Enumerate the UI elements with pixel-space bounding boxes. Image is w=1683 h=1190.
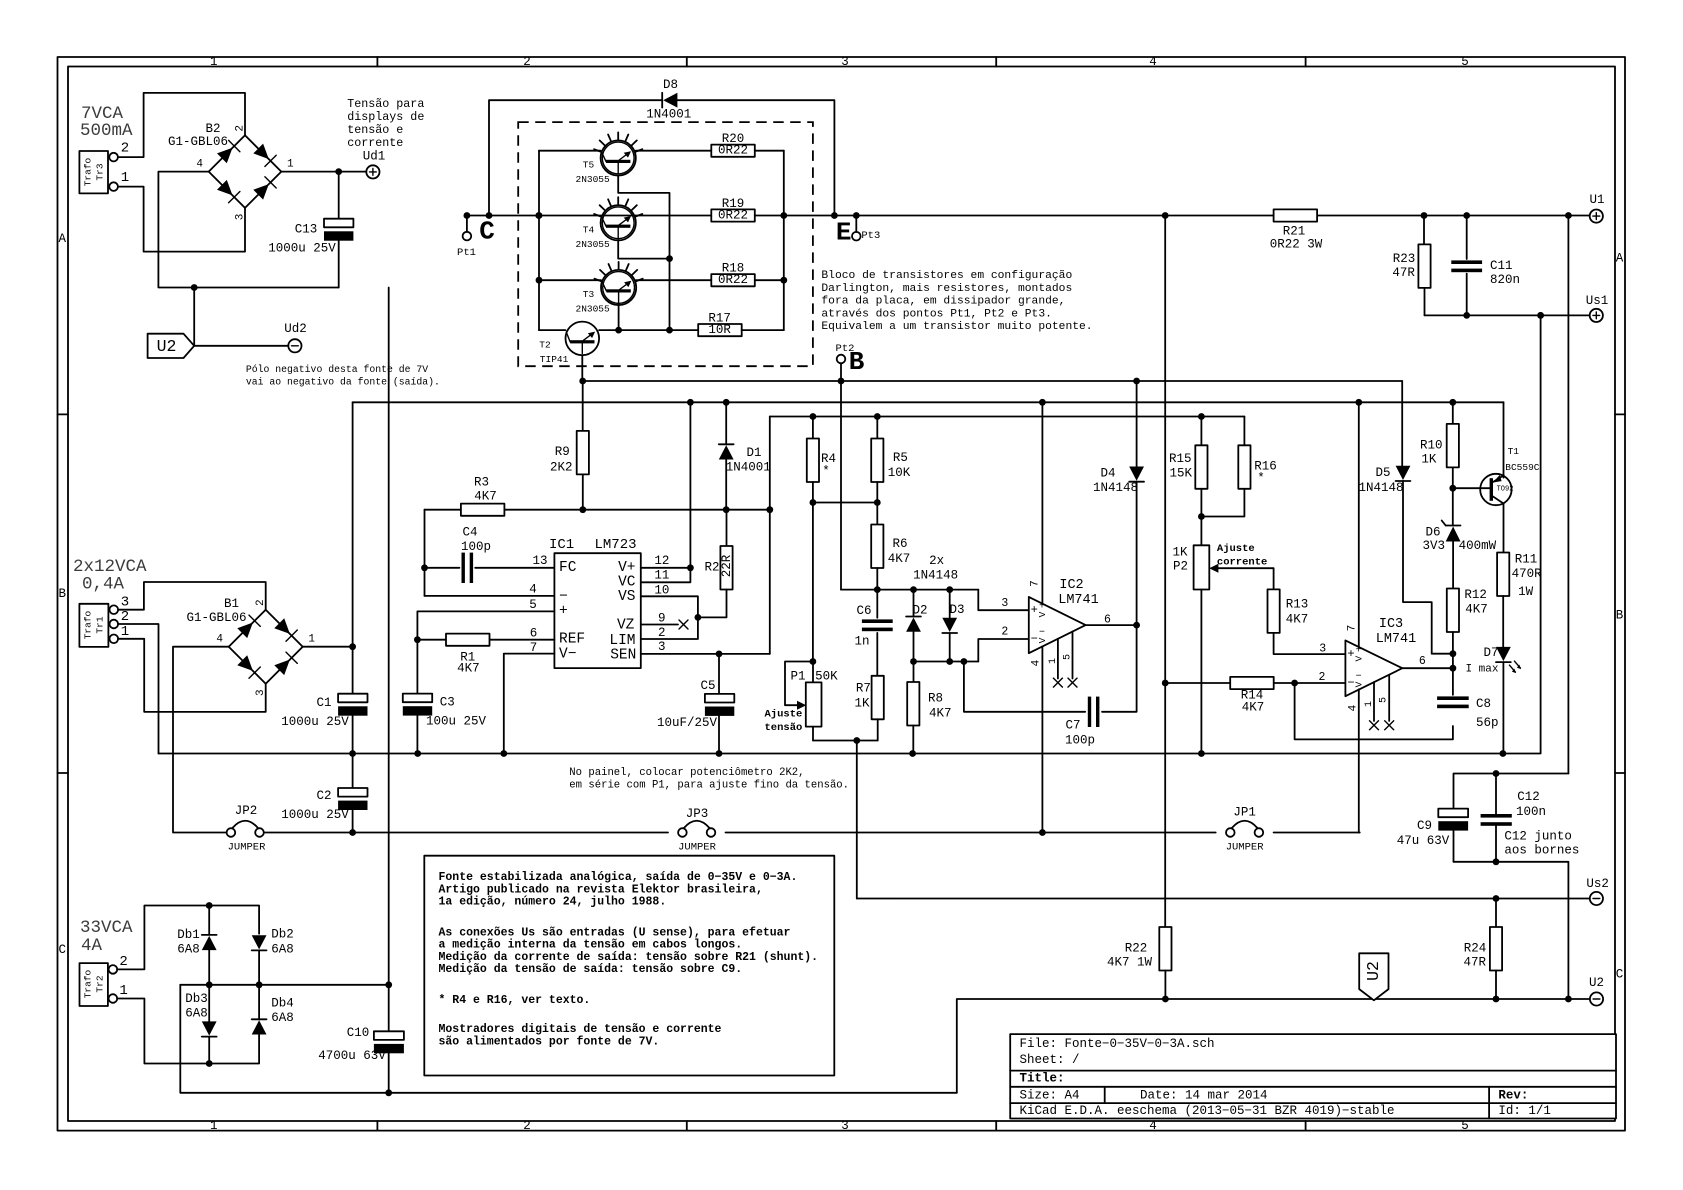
svg-text:Ud2: Ud2: [284, 322, 307, 336]
svg-text:2: 2: [121, 141, 129, 157]
diode Db4 6A8: [252, 985, 294, 1036]
svg-text:5: 5: [1379, 697, 1390, 703]
label Ajuste corrente: [1217, 543, 1267, 569]
output Us2: [1590, 892, 1603, 905]
text C12 junto aos bornes: [1504, 830, 1579, 858]
wire U1 sense vertical: [1567, 216, 1569, 774]
svg-text:LM741: LM741: [1376, 632, 1417, 647]
text 7VCA 500mA: [80, 104, 133, 141]
wire D8 branch: [489, 100, 834, 215]
resistor R7 1K: [854, 676, 883, 741]
svg-text:3: 3: [255, 689, 267, 696]
svg-text:T5: T5: [583, 160, 595, 171]
svg-text:2: 2: [523, 1119, 531, 1133]
transistor T5 2N3055: [539, 132, 711, 185]
svg-text:820n: 820n: [1490, 273, 1520, 287]
svg-text:4K7: 4K7: [457, 662, 480, 676]
svg-text:I max: I max: [1465, 664, 1498, 676]
svg-text:Trafo: Trafo: [83, 610, 94, 639]
svg-text:1N4148: 1N4148: [1358, 481, 1403, 495]
svg-text:* R4 e R16, ver texto.: * R4 e R16, ver texto.: [439, 994, 591, 1007]
svg-text:C12: C12: [1517, 790, 1540, 804]
svg-text:C10: C10: [347, 1026, 370, 1040]
svg-text:Equivalem a um transistor muit: Equivalem a um transistor muito potente.: [821, 321, 1092, 333]
wire B2 pin4 to C13 minus rail: [158, 172, 338, 288]
svg-text:500mA: 500mA: [80, 121, 133, 141]
svg-text:2: 2: [523, 55, 531, 69]
wire R4 to P1 top: [812, 503, 814, 662]
transistor T2 TIP41: [539, 322, 698, 365]
svg-text:1000u 25V: 1000u 25V: [281, 808, 349, 822]
svg-text:4A: 4A: [81, 936, 103, 956]
point Pt2: [836, 343, 855, 381]
wire Us2 rail: [857, 895, 1590, 902]
svg-text:B: B: [59, 587, 67, 601]
svg-text:1000u 25V: 1000u 25V: [268, 242, 336, 256]
resistor R8 4K7: [907, 662, 951, 754]
wire T2 emitter to node B: [579, 355, 586, 384]
svg-text:C13: C13: [295, 223, 318, 237]
diode Db2 6A8: [252, 928, 294, 985]
svg-text:TIP41: TIP41: [540, 354, 569, 365]
svg-text:56p: 56p: [1476, 716, 1499, 730]
wire Tr1 pin1 to B1 AC bottom: [118, 639, 266, 712]
svg-text:R2: R2: [704, 561, 719, 575]
wire sense plus rail to C9: [1454, 770, 1569, 809]
svg-text:C: C: [59, 943, 67, 957]
wire R12 bottom to C8 top: [1452, 654, 1454, 669]
output U2: [1590, 992, 1603, 1005]
svg-text:5: 5: [1461, 55, 1469, 69]
svg-text:3: 3: [234, 214, 246, 221]
wire Tr3 pin1 to bridge B2 AC2: [118, 187, 245, 252]
svg-text:C1: C1: [316, 696, 331, 710]
svg-text:2: 2: [119, 954, 127, 970]
svg-text:1K: 1K: [1172, 546, 1188, 560]
label B1 G1-GBL06: [186, 597, 246, 625]
wire R10 to T1 base: [1449, 485, 1480, 492]
svg-text:Ajuste: Ajuste: [765, 709, 803, 721]
svg-text:Date: 14 mar 2014: Date: 14 mar 2014: [1140, 1088, 1268, 1102]
svg-text:2x: 2x: [929, 554, 944, 568]
svg-text:V: V: [1353, 656, 1364, 662]
IC2 pins 1 5 no-connect: [1053, 632, 1077, 688]
svg-text:4: 4: [1031, 659, 1043, 666]
capacitor C4 100p: [425, 526, 555, 584]
capacitor C6 1n: [854, 590, 892, 676]
svg-text:corrente: corrente: [347, 136, 403, 150]
transistor T4 2N3055: [576, 197, 643, 250]
svg-text:1N4148: 1N4148: [1093, 481, 1138, 495]
svg-text:3V3: 3V3: [1422, 539, 1445, 553]
svg-text:1: 1: [210, 1119, 218, 1133]
wire positive supply bus: [353, 399, 1504, 406]
text Tensao para displays: [347, 97, 424, 150]
wire IC1 VC pin11: [641, 568, 691, 583]
svg-text:1N4148: 1N4148: [913, 569, 958, 583]
svg-text:BC559C: BC559C: [1505, 462, 1540, 473]
wire IC1 REF pin6 to R1: [414, 636, 554, 643]
svg-text:Trafo: Trafo: [83, 157, 94, 186]
svg-text:−: −: [559, 589, 568, 605]
svg-text:IC2: IC2: [1059, 578, 1083, 593]
svg-text:C8: C8: [1476, 697, 1491, 711]
wire R3 feedback corner: [421, 510, 554, 596]
wire R4 R5 bottom rail: [810, 499, 881, 506]
svg-text:12: 12: [654, 554, 669, 568]
svg-text:são alimentados por fonte de 7: são alimentados por fonte de 7V.: [439, 1035, 660, 1048]
svg-text:6: 6: [1104, 614, 1111, 627]
svg-text:TO92: TO92: [1497, 486, 1514, 494]
svg-text:E: E: [836, 218, 852, 248]
diode D7 LED I max: [1465, 646, 1520, 754]
svg-text:V+: V+: [618, 560, 635, 576]
svg-text:4: 4: [1347, 704, 1359, 711]
capacitor C12 100n: [1481, 774, 1546, 862]
resistor R21 0R22 3W: [1270, 209, 1323, 251]
capacitor C10 4700u 63V: [318, 985, 404, 1093]
svg-text:V: V: [1037, 611, 1048, 617]
svg-text:V−: V−: [559, 646, 576, 662]
svg-text:3: 3: [1319, 643, 1326, 656]
svg-text:U1: U1: [1589, 193, 1604, 207]
svg-text:A: A: [1616, 252, 1624, 266]
wire IC3 pin4 corner at JP1 rail: [1358, 832, 1361, 834]
svg-text:9: 9: [658, 611, 666, 625]
wire Tr2 pin1 bottom rail: [117, 999, 259, 1067]
wire B2 pin1 to Ud1: [281, 168, 366, 175]
resistor R6 4K7: [871, 503, 910, 590]
svg-text:File: Fonte−0−35V−0−3A.sch: File: Fonte−0−35V−0−3A.sch: [1020, 1037, 1215, 1051]
resistor R2 22R: [698, 510, 734, 618]
output U1: [1590, 210, 1603, 223]
svg-text:V: V: [1037, 637, 1048, 643]
svg-text:VZ: VZ: [617, 618, 635, 634]
label Ud1: [363, 150, 386, 164]
svg-text:400mW: 400mW: [1459, 539, 1497, 553]
svg-text:D2: D2: [912, 604, 927, 618]
svg-text:4K7: 4K7: [888, 552, 911, 566]
svg-text:Darlington, mais resistores, m: Darlington, mais resistores, montados: [821, 283, 1072, 295]
svg-text:Tr1: Tr1: [95, 616, 106, 633]
text 2x12VCA 0,4A: [73, 557, 147, 595]
label B big: [849, 347, 865, 377]
wire B1 pin4 to jumper JP2: [173, 647, 229, 833]
svg-text:7: 7: [1346, 625, 1358, 632]
capacitor C3 100u 25V: [403, 640, 487, 754]
svg-text:C11: C11: [1490, 259, 1513, 273]
wire Tr1 pin3 to B1 AC top: [118, 582, 266, 610]
wire IC3 feedback via C8: [1295, 683, 1453, 739]
diode D1 1N4001: [719, 402, 771, 509]
wire P1 R7 bottom rail: [810, 658, 878, 744]
svg-text:JP2: JP2: [235, 804, 258, 818]
svg-text:47R: 47R: [1392, 266, 1415, 280]
resistor R16: [1198, 417, 1277, 520]
svg-text:Rev:: Rev:: [1498, 1088, 1528, 1102]
wire IC1 plus input pin5: [417, 611, 554, 639]
power flag U2 bottom: [1359, 953, 1388, 1000]
svg-text:Size: A4: Size: A4: [1020, 1088, 1080, 1102]
svg-text:1: 1: [287, 159, 294, 171]
svg-text:R23: R23: [1393, 252, 1416, 266]
svg-text:VS: VS: [618, 589, 635, 605]
svg-text:1N4001: 1N4001: [726, 461, 771, 475]
diode D5 1N4148: [1358, 381, 1456, 657]
svg-text:R11: R11: [1515, 553, 1538, 567]
wire 7V negative long vertical: [388, 288, 390, 985]
op IC1 LM723 box: [549, 537, 641, 668]
svg-text:Medição da corrente de saída:: Medição da corrente de saída: tensão sob…: [439, 951, 819, 964]
wire IC2 output pin6: [1086, 614, 1140, 629]
diode D3 1N4148: [942, 590, 964, 662]
wire rectifier mid rail: [180, 981, 392, 988]
svg-text:C: C: [1616, 968, 1624, 982]
svg-text:1W: 1W: [1518, 585, 1534, 599]
svg-text:U2: U2: [1589, 976, 1604, 990]
svg-text:Title:: Title:: [1020, 1072, 1065, 1086]
resistor R3 4K7: [461, 476, 505, 516]
svg-text:tensão e: tensão e: [347, 123, 403, 137]
svg-text:R8: R8: [928, 692, 943, 706]
svg-text:1: 1: [119, 983, 127, 999]
IC3 pins 1 5 no-connect: [1370, 675, 1394, 730]
svg-text:Bloco de transistores em confi: Bloco de transistores em configuração: [821, 270, 1072, 282]
wire IC3 pin7 to bus: [1358, 402, 1360, 647]
text Polo negativo desta fonte: [246, 364, 440, 387]
text No painel colocar potenciometro: [569, 767, 849, 791]
svg-text:3: 3: [841, 55, 849, 69]
svg-text:13: 13: [532, 554, 547, 568]
resistor R17 10R: [698, 311, 784, 337]
svg-text:0,4A: 0,4A: [82, 575, 125, 595]
svg-text:C5: C5: [700, 679, 715, 693]
wire P1 rail down to Us2 rail: [856, 741, 858, 899]
wire B to R9: [582, 381, 584, 431]
svg-text:1K: 1K: [1421, 453, 1437, 467]
svg-text:+: +: [559, 604, 568, 620]
transistor T1 BC559C: [1480, 402, 1540, 552]
text 33VCA 4A: [80, 918, 133, 956]
svg-text:Mostradores digitais de tensão: Mostradores digitais de tensão e corrent…: [439, 1023, 722, 1036]
svg-text:R15: R15: [1169, 452, 1192, 466]
svg-text:As conexões Us são entradas (U: As conexões Us são entradas (U sense), p…: [439, 926, 791, 939]
svg-text:T2: T2: [539, 340, 551, 351]
svg-text:KiCad E.D.A. eeschema (2013−0: KiCad E.D.A. eeschema (2013−05−31 BZR 40…: [1020, 1104, 1395, 1118]
svg-text:Db3: Db3: [185, 992, 208, 1006]
wire R3 R9 D1 node line: [425, 506, 774, 513]
svg-text:4K7: 4K7: [929, 707, 952, 721]
svg-text:6A8: 6A8: [177, 943, 200, 957]
svg-text:6: 6: [530, 626, 538, 640]
text Bloco de transistores: [821, 270, 1092, 333]
point Pt3: [852, 216, 880, 243]
svg-text:aos bornes: aos bornes: [1504, 844, 1579, 858]
svg-text:IC1: IC1: [549, 537, 574, 553]
svg-text:U2: U2: [1364, 961, 1383, 981]
resistor R13 4K7: [1268, 589, 1346, 654]
svg-text:4: 4: [196, 159, 203, 171]
wire base line B: [583, 378, 1402, 385]
resistor R11 470R 1W: [1497, 553, 1542, 647]
svg-text:6: 6: [1419, 655, 1426, 668]
op-amp IC3 LM741: [1345, 617, 1416, 696]
diode D4 1N4148: [1093, 381, 1144, 625]
svg-text:SEN: SEN: [610, 648, 636, 664]
svg-text:3: 3: [658, 640, 666, 654]
diode Db3 6A8: [185, 985, 216, 1064]
pin 2 label of Tr3: [121, 141, 129, 157]
svg-text:2: 2: [1319, 671, 1326, 684]
svg-text:100p: 100p: [1065, 734, 1095, 748]
svg-text:D8: D8: [663, 78, 678, 92]
point Pt1: [457, 216, 476, 260]
svg-text:FC: FC: [559, 560, 577, 576]
wire T5 emitter to T4 collector node: [618, 176, 669, 259]
svg-text:LM741: LM741: [1058, 593, 1099, 608]
svg-text:−: −: [1039, 628, 1045, 639]
svg-text:V: V: [1353, 681, 1364, 687]
svg-text:2: 2: [255, 599, 267, 606]
node junction on C13 rail: [191, 284, 198, 291]
svg-text:D6: D6: [1425, 526, 1440, 540]
svg-text:Ud1: Ud1: [363, 150, 386, 164]
svg-text:B2: B2: [205, 122, 220, 136]
svg-text:2: 2: [658, 626, 666, 640]
svg-text:REF: REF: [559, 631, 585, 647]
svg-text:6A8: 6A8: [185, 1007, 208, 1021]
output Us1: [1590, 309, 1603, 322]
svg-text:470R: 470R: [1512, 567, 1543, 581]
resistor R22 4K7 1W: [1107, 927, 1172, 999]
wire to U2 flag: [194, 288, 288, 346]
svg-text:5: 5: [1461, 1119, 1469, 1133]
svg-text:Pt1: Pt1: [457, 247, 476, 259]
svg-text:R5: R5: [893, 451, 908, 465]
zener D6 3V3: [1422, 488, 1496, 588]
svg-text:Tr2: Tr2: [95, 975, 106, 992]
jumper JP3: [678, 807, 717, 854]
wire IC3 pin4 to jumper rail: [1358, 689, 1360, 832]
capacitor C11 820n: [1451, 216, 1520, 316]
wire Tr2 pin2 top rail: [117, 902, 259, 969]
resistor R5 10K: [871, 417, 911, 503]
IC1 pin names: [559, 560, 636, 664]
label B2 G1-GBL06: [168, 122, 228, 149]
diode D8 1N4001: [646, 78, 691, 122]
svg-text:1N4001: 1N4001: [646, 108, 691, 122]
capacitor C7 100p feedback: [964, 625, 1137, 747]
wire IC1 SEN pin3: [641, 417, 770, 658]
svg-text:C12 junto: C12 junto: [1504, 830, 1572, 844]
svg-text:1: 1: [210, 55, 218, 69]
svg-text:D4: D4: [1100, 467, 1115, 481]
svg-text:10K: 10K: [888, 466, 911, 480]
wire D2 D3 bottom rail to IC2 pin2: [910, 639, 1029, 665]
svg-text:C: C: [479, 217, 495, 247]
svg-text:R10: R10: [1420, 439, 1443, 453]
wire Us1 line: [1425, 312, 1590, 319]
label Us1: [1586, 294, 1609, 308]
svg-text:4700u 63V: 4700u 63V: [318, 1049, 386, 1063]
wire IC2 pin3 from diode top rail: [978, 590, 1029, 611]
wire E sense vertical: [1164, 216, 1166, 927]
svg-text:Trafo: Trafo: [83, 969, 94, 998]
svg-text:1: 1: [308, 634, 315, 646]
svg-text:7: 7: [1030, 580, 1042, 587]
diode Db1 6A8: [177, 906, 216, 985]
label Ajuste tensao: [765, 709, 803, 735]
svg-text:R9: R9: [555, 445, 570, 459]
svg-text:2N3055: 2N3055: [576, 174, 611, 185]
svg-text:5: 5: [529, 598, 537, 612]
svg-text:D7: D7: [1483, 646, 1498, 660]
bridge rectifier B1: [216, 599, 315, 696]
IC1 pin numbers: [529, 554, 669, 655]
output Ud2: [288, 339, 301, 352]
IC2 pin number labels: [1001, 580, 1073, 666]
resistor R24 47R: [1464, 899, 1503, 1000]
svg-text:T3: T3: [583, 289, 595, 300]
svg-text:T1: T1: [1508, 446, 1520, 457]
svg-text:22R: 22R: [720, 554, 734, 577]
svg-text:a medição interna da tensão em: a medição interna da tensão em cabos lon…: [439, 939, 743, 952]
svg-text:corrente: corrente: [1217, 557, 1267, 569]
svg-text:R22: R22: [1125, 942, 1148, 956]
diode D2 1N4148: [906, 590, 927, 662]
label U2 output: [1589, 976, 1604, 990]
svg-text:C2: C2: [316, 789, 331, 803]
svg-text:R24: R24: [1464, 942, 1487, 956]
svg-text:Ajuste: Ajuste: [1217, 543, 1255, 555]
svg-text:em série com P1, para ajuste f: em série com P1, para ajuste fino da ten…: [569, 779, 849, 791]
wire C9 C12 bottom rail to U2 line: [1454, 858, 1569, 999]
svg-text:Us1: Us1: [1586, 294, 1609, 308]
transformer Tr1: [79, 604, 118, 647]
svg-text:1n: 1n: [854, 635, 869, 649]
svg-text:1: 1: [121, 624, 129, 640]
svg-text:0R22: 0R22: [718, 209, 748, 223]
label E big: [836, 218, 852, 248]
svg-text:4K7: 4K7: [1465, 603, 1488, 617]
svg-text:R12: R12: [1464, 588, 1487, 602]
capacitor C9 47u 63V: [1397, 809, 1468, 862]
svg-text:tensão: tensão: [765, 722, 803, 734]
capacitor C5 10uF/25V: [657, 654, 734, 754]
svg-text:JP3: JP3: [686, 807, 709, 821]
resistor R15 15K: [1169, 417, 1207, 517]
svg-text:Us2: Us2: [1586, 877, 1609, 891]
svg-text:P2: P2: [1173, 560, 1188, 574]
Tr1 pin labels: [121, 595, 129, 641]
svg-text:B: B: [1616, 609, 1624, 623]
wire B1 pin1 to C1: [303, 643, 356, 650]
svg-text:2: 2: [1001, 626, 1008, 639]
svg-text:R7: R7: [856, 682, 871, 696]
pin 1 label of Tr3: [121, 170, 129, 186]
svg-text:−: −: [1356, 671, 1362, 682]
svg-text:D1: D1: [746, 446, 761, 460]
bridge rectifier B2: [196, 125, 294, 220]
wire T3 emitter: [615, 304, 622, 333]
svg-text:D3: D3: [949, 603, 964, 617]
svg-text:2: 2: [121, 609, 129, 625]
svg-text:2: 2: [234, 125, 246, 132]
wire T4 emitter: [618, 241, 673, 331]
svg-text:2K2: 2K2: [550, 461, 573, 475]
svg-text:R6: R6: [892, 537, 907, 551]
svg-text:Medição da tensão de saída: te: Medição da tensão de saída: tensão sobre…: [439, 963, 743, 976]
